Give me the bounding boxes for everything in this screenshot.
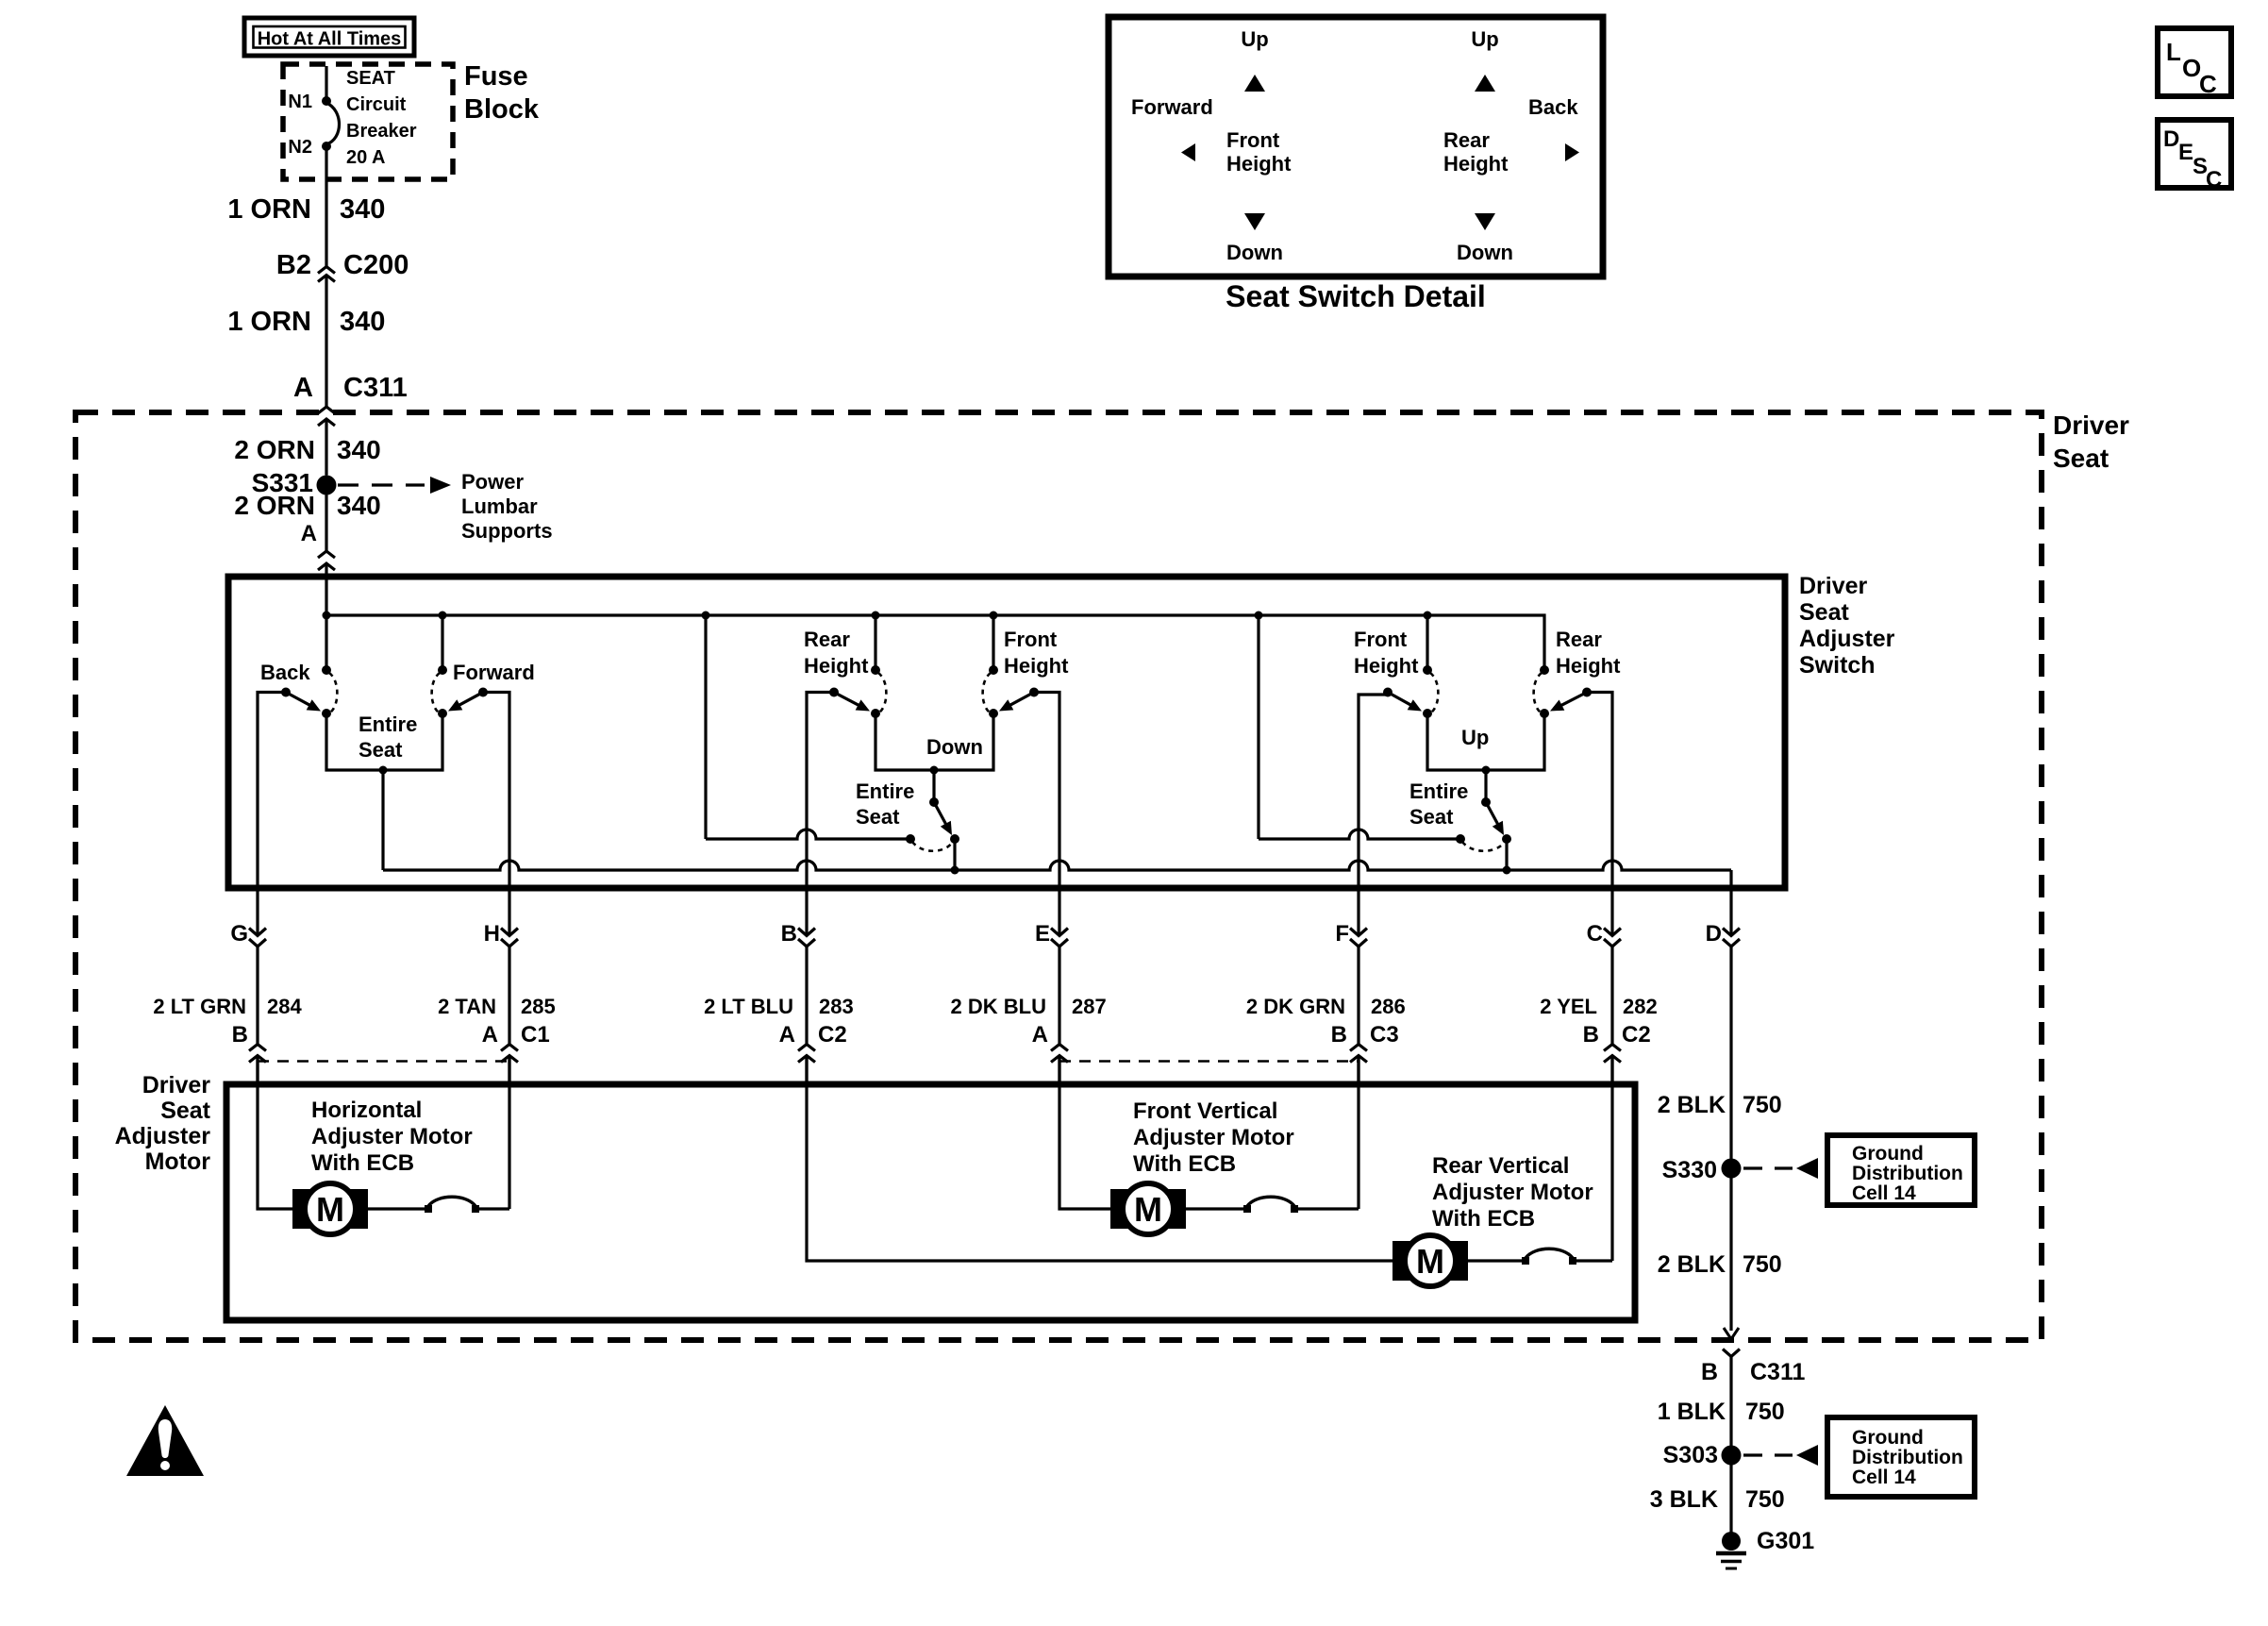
fuse block dashed outline [283, 64, 453, 179]
svg-text:Up: Up [1461, 726, 1489, 749]
wire: motor to ECB [1186, 1207, 1247, 1210]
wire: bus drop to Front Height contact (section 3) [1426, 615, 1428, 670]
svg-text:Height: Height [1354, 654, 1419, 678]
Driver Seat Adjuster Motor box [226, 1084, 1635, 1320]
svg-text:750: 750 [1743, 1251, 1782, 1278]
reference arrow to Ground Distribution Cell 14 (S303) [1743, 1453, 1793, 1456]
connector C311 pin B (bottom) [1723, 1349, 1740, 1357]
wire: section 3 Entire Seat output to ground bus [1505, 839, 1508, 870]
connector chevrons at x=540 (motor connector) [501, 1045, 518, 1051]
svg-text:Height: Height [1443, 152, 1509, 176]
wire: ECB to terminal H [475, 1207, 509, 1210]
wire: ECB to terminal C [1573, 1259, 1612, 1262]
svg-text:Rear: Rear [804, 628, 850, 651]
svg-text:C200: C200 [343, 250, 409, 280]
svg-text:With ECB: With ECB [1133, 1151, 1236, 1177]
wire below terminal E [1058, 947, 1060, 1045]
wire: Back output to terminal G [258, 693, 286, 889]
connector C200 pin B2 [318, 267, 335, 274]
svg-text:340: 340 [340, 307, 385, 337]
svg-text:N2: N2 [288, 137, 312, 158]
svg-text:B: B [781, 921, 797, 947]
svg-text:Seat: Seat [160, 1098, 210, 1124]
wire into adjuster motor assembly at x=540 [508, 1056, 510, 1082]
wire: section 2 Entire Seat output to ground bus [953, 839, 956, 870]
svg-text:286: 286 [1371, 995, 1406, 1018]
wire into adjuster motor assembly at x=1709 [1610, 1056, 1613, 1082]
wire: terminal E to Front Vertical Adjuster Motor [1059, 1056, 1110, 1210]
Entire Seat switch (section 3) [1484, 770, 1487, 802]
wire below terminal B [805, 947, 808, 1045]
pin N2 [322, 142, 331, 151]
svg-text:Back: Back [260, 661, 310, 684]
wire 2 ORN 340 from S331 to switch pin A [325, 495, 327, 552]
Driver Seat dashed boundary box [75, 412, 2042, 1340]
svg-text:3 BLK: 3 BLK [1650, 1486, 1718, 1513]
svg-text:S303: S303 [1663, 1442, 1718, 1468]
svg-text:Distribution: Distribution [1852, 1163, 1963, 1184]
wire: bus feed drop for Entire Seat contact (section 3) [1259, 830, 1460, 839]
wire: terminal B to Rear Vertical Adjuster Motor [807, 1056, 1392, 1262]
LOC reference box [2158, 28, 2231, 96]
svg-text:G301: G301 [1757, 1528, 1814, 1554]
svg-text:C: C [2199, 70, 2217, 98]
motor symbol at (1516,1336) [1392, 1241, 1468, 1281]
svg-text:Rear: Rear [1443, 128, 1490, 152]
pin N1 [322, 96, 331, 106]
svg-text:Entire: Entire [1409, 779, 1468, 803]
svg-text:1 ORN: 1 ORN [227, 194, 311, 225]
svg-text:2 DK GRN: 2 DK GRN [1246, 995, 1345, 1018]
motor symbol at (1217,1281) [1110, 1189, 1186, 1229]
switch contact Rear Height (section 2 left pole) [871, 665, 880, 675]
terminal H of switch with connector chevrons [508, 891, 510, 936]
svg-text:2 LT BLU: 2 LT BLU [704, 995, 793, 1018]
svg-text:S330: S330 [1662, 1157, 1717, 1183]
wire below terminal G [256, 947, 258, 1045]
wire below terminal D (2 BLK 750) [1729, 947, 1732, 1331]
wire 1 ORN 340 from C200 to C311 [325, 276, 327, 408]
svg-text:Front: Front [1004, 628, 1058, 651]
ECB thermal protector at (1617,1336) [1522, 1257, 1529, 1265]
wire into adjuster motor assembly at x=1440 [1357, 1056, 1359, 1082]
svg-text:E: E [1035, 921, 1050, 947]
svg-text:D: D [2163, 126, 2179, 152]
connector chevrons at x=855 (motor connector) [798, 1045, 815, 1051]
svg-text:Seat: Seat [856, 805, 900, 829]
svg-text:2 TAN: 2 TAN [438, 995, 496, 1018]
svg-text:C311: C311 [343, 373, 408, 403]
connector C1 dashed interface line [258, 1060, 509, 1063]
wire: Rear Height output to terminal C [1587, 693, 1612, 889]
terminal B of switch with connector chevrons [805, 891, 808, 936]
svg-text:C2: C2 [818, 1022, 847, 1048]
svg-text:C: C [2206, 167, 2222, 193]
svg-text:282: 282 [1623, 995, 1658, 1018]
svg-text:A: A [301, 521, 317, 546]
circuit breaker SEAT Circuit Breaker 20 A [326, 103, 340, 144]
svg-text:Front Vertical: Front Vertical [1133, 1098, 1277, 1124]
svg-text:D: D [1706, 921, 1722, 947]
svg-text:Supports: Supports [461, 519, 553, 543]
wire: bus feed drop for Entire Seat contact (section 2) [706, 830, 910, 839]
svg-text:Driver: Driver [1799, 573, 1868, 599]
svg-text:750: 750 [1745, 1399, 1785, 1425]
wire: section 1 Entire Seat output to ground bus [381, 770, 384, 870]
svg-text:Front: Front [1226, 128, 1280, 152]
svg-text:Cell 14: Cell 14 [1852, 1182, 1916, 1204]
svg-text:Height: Height [804, 654, 869, 678]
wire: motor to ECB [1468, 1259, 1526, 1262]
switch contact Back (section 1 left pole) [322, 665, 331, 675]
svg-text:B: B [1701, 1359, 1718, 1385]
switch contact Rear Height (section 3 right pole) [1540, 665, 1549, 675]
wire: motor to ECB [368, 1207, 428, 1210]
svg-text:2 BLK: 2 BLK [1658, 1251, 1726, 1278]
svg-text:Ground: Ground [1852, 1143, 1924, 1165]
switch feed bus [326, 615, 1544, 670]
svg-text:Seat: Seat [1799, 599, 1849, 626]
Up link (section 3) [1427, 713, 1544, 770]
ground G301 [1722, 1532, 1741, 1551]
switch contact Front Height (section 2 right pole) [989, 665, 998, 675]
wire 2 ORN 340 from C311 to splice S331 [325, 419, 327, 476]
svg-text:Up: Up [1471, 27, 1498, 51]
svg-text:Fuse: Fuse [464, 61, 528, 92]
svg-text:Rear Vertical: Rear Vertical [1432, 1153, 1569, 1179]
svg-text:750: 750 [1743, 1092, 1782, 1118]
svg-text:Hot At All Times: Hot At All Times [258, 29, 402, 50]
left arrow (forward) [1181, 143, 1195, 161]
connector chevrons at x=1440 (motor connector) [1350, 1045, 1367, 1051]
right arrow (back) [1565, 143, 1579, 161]
ECB thermal protector at (1322,1281) [1243, 1205, 1251, 1213]
terminal D of switch with connector chevrons [1729, 891, 1732, 936]
down arrow (front) [1244, 213, 1265, 230]
svg-text:2 ORN: 2 ORN [234, 435, 315, 464]
svg-text:L: L [2166, 38, 2181, 66]
svg-text:Back: Back [1528, 95, 1578, 119]
terminal G of switch with connector chevrons [256, 891, 258, 936]
wire: Rear Height output to terminal B [807, 693, 834, 889]
svg-text:Cell 14: Cell 14 [1852, 1467, 1916, 1488]
svg-text:340: 340 [337, 435, 381, 464]
svg-text:20 A: 20 A [346, 147, 386, 168]
svg-text:With ECB: With ECB [311, 1150, 414, 1176]
svg-text:Forward: Forward [1131, 95, 1213, 119]
wire into adjuster motor assembly at x=273 [256, 1056, 258, 1082]
connector chevrons at x=273 (motor connector) [249, 1045, 266, 1051]
connector C3 dashed interface line [1059, 1060, 1359, 1063]
svg-text:A: A [1032, 1022, 1048, 1048]
svg-text:Adjuster Motor: Adjuster Motor [1133, 1125, 1294, 1150]
ECB thermal protector at (454,1281) [425, 1205, 432, 1213]
svg-text:Height: Height [1004, 654, 1069, 678]
wire: Front Height output to terminal F [1359, 695, 1388, 888]
svg-text:B: B [1583, 1022, 1599, 1048]
svg-text:Block: Block [464, 94, 540, 125]
svg-text:C: C [1587, 921, 1603, 947]
svg-text:283: 283 [819, 995, 854, 1018]
Down link (section 2) [876, 713, 993, 770]
DESC reference box [2158, 120, 2231, 188]
wire 1 ORN 340 from breaker to C200 [325, 148, 327, 267]
motor symbol at (350,1281) [292, 1189, 368, 1229]
svg-text:M: M [316, 1190, 344, 1229]
warning triangle [126, 1405, 204, 1476]
svg-text:Height: Height [1556, 654, 1621, 678]
up arrow (rear) [1475, 75, 1495, 92]
Entire Seat switch (section 2) [932, 770, 935, 802]
svg-text:2 YEL: 2 YEL [1540, 995, 1597, 1018]
Seat Switch Detail box [1109, 17, 1603, 277]
svg-text:284: 284 [267, 995, 302, 1018]
connector C311 pin A [318, 407, 335, 413]
svg-text:Seat: Seat [1409, 805, 1454, 829]
svg-text:Breaker: Breaker [346, 121, 417, 142]
svg-text:Seat: Seat [2053, 444, 2109, 473]
svg-text:Adjuster Motor: Adjuster Motor [1432, 1180, 1593, 1205]
wire 1 BLK 750 from C311 to S303 [1729, 1357, 1732, 1534]
svg-text:Driver: Driver [2053, 411, 2129, 440]
svg-text:Distribution: Distribution [1852, 1447, 1963, 1468]
Ground Distribution Cell 14 box (lower) [1827, 1417, 1975, 1497]
svg-text:Forward: Forward [453, 661, 535, 684]
svg-text:Height: Height [1226, 152, 1292, 176]
svg-text:Circuit: Circuit [346, 94, 407, 115]
svg-text:Adjuster: Adjuster [115, 1123, 211, 1149]
bus junction at x=346 [323, 612, 331, 620]
svg-text:Power: Power [461, 470, 524, 494]
svg-text:E: E [2178, 140, 2193, 165]
svg-text:285: 285 [521, 995, 556, 1018]
svg-text:Up: Up [1241, 27, 1268, 51]
bus junction at x=469 [439, 612, 447, 620]
svg-text:With ECB: With ECB [1432, 1206, 1535, 1232]
svg-text:2 ORN: 2 ORN [234, 491, 315, 520]
bus junction at x=1334 [1255, 612, 1263, 620]
svg-text:C311: C311 [1750, 1359, 1805, 1385]
svg-text:Driver: Driver [142, 1072, 211, 1098]
svg-text:750: 750 [1745, 1486, 1785, 1513]
power source box "Hot At All Times" [244, 18, 414, 56]
splice S331 [317, 476, 337, 495]
wire: bus drop to Front Height contact (section 2) [992, 615, 994, 670]
svg-text:B: B [232, 1022, 248, 1048]
svg-text:Down: Down [926, 735, 983, 759]
wire: feed from Hot At All Times into circuit breaker [325, 66, 327, 97]
wire: Forward output to terminal H [483, 693, 509, 889]
svg-text:Motor: Motor [145, 1148, 211, 1175]
wire: ECB to terminal F [1294, 1207, 1359, 1210]
reference arrow to Power Lumbar Supports [338, 483, 425, 486]
svg-text:Front: Front [1354, 628, 1408, 651]
svg-text:Lumbar: Lumbar [461, 495, 538, 518]
svg-text:1 ORN: 1 ORN [227, 307, 311, 337]
svg-text:Rear: Rear [1556, 628, 1602, 651]
wire: terminal G to Horizontal Adjuster Motor [258, 1056, 292, 1210]
svg-text:SEAT: SEAT [346, 68, 395, 89]
terminal F of switch with connector chevrons [1357, 891, 1359, 936]
svg-text:N1: N1 [288, 92, 312, 112]
svg-text:2 BLK: 2 BLK [1658, 1092, 1726, 1118]
switch ground bus to terminal D [383, 861, 1731, 870]
svg-text:C1: C1 [521, 1022, 550, 1048]
svg-text:340: 340 [340, 194, 385, 225]
svg-text:Adjuster Motor: Adjuster Motor [311, 1124, 473, 1149]
svg-text:340: 340 [337, 491, 381, 520]
bus junction at x=1053 [990, 612, 998, 620]
svg-text:C3: C3 [1370, 1022, 1399, 1048]
wire: bus drop to Forward contact [441, 615, 443, 670]
connector chevrons at x=1709 (motor connector) [1604, 1045, 1621, 1051]
Ground Distribution Cell 14 box (upper) [1827, 1135, 1975, 1205]
svg-text:A: A [779, 1022, 795, 1048]
terminal C of switch with connector chevrons [1610, 891, 1613, 936]
svg-text:C2: C2 [1622, 1022, 1651, 1048]
svg-text:B2: B2 [276, 250, 311, 280]
splice S303 [1722, 1446, 1742, 1466]
svg-text:G: G [230, 921, 248, 947]
wire below terminal C [1610, 947, 1613, 1045]
bus junction at x=748 [702, 612, 710, 620]
svg-text:Seat: Seat [359, 738, 403, 762]
svg-text:Ground: Ground [1852, 1427, 1924, 1449]
wire: bus drop to Rear Height contact (section 2) [874, 615, 876, 670]
down arrow (rear) [1475, 213, 1495, 230]
svg-text:287: 287 [1072, 995, 1107, 1018]
up arrow (front) [1244, 75, 1265, 92]
wire into adjuster motor assembly at x=855 [805, 1056, 808, 1082]
wire: Front Height output to terminal E [1034, 693, 1059, 889]
wire below terminal F [1357, 947, 1359, 1045]
switch contact Front Height (section 3 left pole) [1423, 665, 1432, 675]
Driver Seat Adjuster Switch box [228, 577, 1785, 888]
reference arrow to Ground Distribution Cell 14 (S330) [1743, 1166, 1793, 1169]
svg-text:1 BLK: 1 BLK [1658, 1399, 1726, 1425]
svg-text:H: H [484, 921, 500, 947]
bus junction at x=1513 [1424, 612, 1432, 620]
svg-text:2 DK BLU: 2 DK BLU [951, 995, 1046, 1018]
splice S330 [1722, 1159, 1742, 1179]
terminal E of switch with connector chevrons [1058, 891, 1060, 936]
connector pin A into switch [318, 551, 335, 558]
connector chevrons at x=1123 (motor connector) [1051, 1045, 1068, 1051]
bus junction at x=928 [872, 612, 880, 620]
arrowhead at Driver Seat boundary on wire D [1724, 1328, 1731, 1339]
svg-text:Entire: Entire [359, 712, 417, 736]
svg-text:M: M [1134, 1190, 1162, 1229]
svg-text:M: M [1416, 1242, 1444, 1281]
wire: feed from pin A to switch bus [325, 563, 327, 615]
svg-text:B: B [1331, 1022, 1347, 1048]
svg-text:Adjuster: Adjuster [1799, 626, 1895, 652]
wire below terminal H [508, 947, 510, 1045]
svg-text:Switch: Switch [1799, 652, 1876, 679]
svg-text:2 LT GRN: 2 LT GRN [153, 995, 246, 1018]
Entire Seat link (section 1) [326, 713, 442, 770]
switch contact Forward (section 1 right pole) [438, 665, 447, 675]
svg-text:Seat Switch Detail: Seat Switch Detail [1226, 279, 1486, 313]
svg-text:Horizontal: Horizontal [311, 1098, 422, 1123]
wire: bus drop to Back contact [325, 615, 327, 670]
svg-text:Down: Down [1457, 241, 1513, 264]
svg-text:Entire: Entire [856, 779, 914, 803]
svg-text:Down: Down [1226, 241, 1283, 264]
svg-text:A: A [293, 373, 313, 403]
svg-text:A: A [482, 1022, 498, 1048]
svg-text:F: F [1335, 921, 1349, 947]
wire into adjuster motor assembly at x=1123 [1058, 1056, 1060, 1082]
